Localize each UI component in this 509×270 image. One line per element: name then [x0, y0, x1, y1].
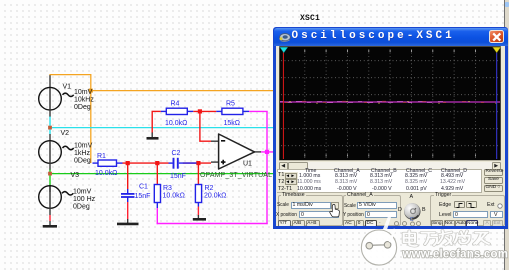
- op-amp U1: [219, 134, 255, 169]
- svg-text:10.0kΩ: 10.0kΩ: [165, 120, 187, 127]
- label C1 15nF: [135, 184, 151, 201]
- svg-text:V1: V1: [63, 84, 72, 91]
- wire: J3 down to R2: [197, 163, 199, 185]
- readout cursor rows labels: [277, 172, 298, 193]
- svg-text:R5: R5: [226, 100, 235, 107]
- svg-text:www.elecfans.com: www.elecfans.com: [402, 249, 509, 261]
- label R4 10.0kohm: [165, 100, 187, 126]
- cursor T2 (blue): [495, 48, 497, 159]
- junction: node J2 (R3/C2): [155, 161, 159, 165]
- knob scale marks: [393, 219, 427, 227]
- wire: V1 bottom pin: [49, 110, 51, 117]
- svg-text:20.0kΩ: 20.0kΩ: [204, 192, 226, 199]
- svg-text:10kHz: 10kHz: [74, 97, 94, 104]
- wire: red node line R1 to op-amp plus input: [123, 162, 212, 164]
- channel A group box: [343, 195, 401, 226]
- svg-text:0Deg: 0Deg: [74, 104, 91, 111]
- ground: C1: [117, 223, 139, 226]
- label C2 15nF: [170, 150, 186, 180]
- junction: node J3 (C2/R2): [196, 161, 200, 165]
- wire: orange branch to oscilloscope channel A: [91, 90, 279, 92]
- oscilloscope screen: [279, 46, 501, 161]
- trigger level row: [439, 213, 451, 218]
- channel select knob: [403, 202, 422, 221]
- svg-text:15nF: 15nF: [170, 173, 186, 180]
- svg-text:15nF: 15nF: [135, 193, 151, 200]
- label R1 10.0kohm: [95, 153, 117, 177]
- oscilloscope title bar: [274, 28, 508, 46]
- wire: J1 down to C1: [127, 163, 129, 194]
- ground: R4: [147, 132, 159, 138]
- workspace right scrollbar nub: [505, 2, 509, 7]
- wire: J2 down to R3: [156, 163, 158, 185]
- label U1: [243, 161, 252, 168]
- label R2 20.0kohm: [204, 185, 226, 200]
- label OPAMP_3T_VIRTUAL: [200, 172, 272, 179]
- wire: R4 to R5: [193, 110, 216, 112]
- svg-text:10.0kΩ: 10.0kΩ: [163, 192, 185, 199]
- readout table text: [297, 168, 481, 170]
- ground terminal button: [484, 185, 504, 192]
- node label V3: [71, 172, 80, 179]
- wire: cyan net to oscilloscope channel B: [50, 127, 279, 129]
- channel A y position row: [343, 213, 364, 218]
- resistor R1: [93, 160, 123, 166]
- timebase scale row: [277, 203, 289, 208]
- svg-text:15kΩ: 15kΩ: [224, 120, 241, 127]
- wire: op-amp input pin stubs: [211, 141, 219, 162]
- timebase mode buttons: [278, 220, 291, 227]
- cursor handle 1 (cyan triangle): [279, 47, 287, 53]
- resistor R5: [216, 108, 249, 114]
- svg-text:U1: U1: [243, 161, 252, 168]
- voltage source V2: [39, 141, 74, 164]
- svg-text:R2: R2: [205, 185, 214, 192]
- oscilloscope title text: [292, 31, 455, 42]
- channel A coupling buttons: [343, 220, 355, 227]
- label V2: [61, 130, 93, 165]
- trigger mode buttons: [431, 220, 444, 227]
- junction: orange branch node: [89, 89, 93, 93]
- wire: output net vertical (magenta): [266, 111, 268, 224]
- svg-text:V3: V3: [71, 172, 80, 179]
- oscilloscope readout area: [277, 169, 482, 193]
- channel A scale row: [344, 204, 356, 209]
- svg-text:R1: R1: [97, 153, 106, 160]
- svg-text:C1: C1: [139, 184, 148, 191]
- wire: R4/R5 node down to op-amp minus input: [200, 111, 211, 141]
- trigger group box: [430, 195, 506, 226]
- oscilloscope title icon: [279, 32, 291, 43]
- voltage source V1: [39, 87, 74, 110]
- junction: output node on magenta vertical: [265, 150, 269, 154]
- wire: R2 to ground: [197, 207, 199, 219]
- ground: V3: [43, 225, 57, 228]
- voltage source V3: [39, 186, 73, 209]
- wire: V1 top pin: [49, 75, 51, 88]
- resistor R3: [154, 185, 160, 209]
- wire: ground up to R4 left: [152, 111, 161, 132]
- svg-text:C2: C2: [172, 150, 181, 157]
- reverse button: [484, 169, 504, 176]
- wire: cyan net segment between V1 and V2: [49, 117, 51, 135]
- wire: R5 right to output net (magenta): [249, 110, 268, 112]
- junction: cyan node: [48, 126, 52, 130]
- label R5 15kohm: [224, 100, 241, 126]
- junction: green node: [48, 172, 52, 176]
- label R3 10.0kohm: [163, 185, 185, 200]
- window bottom border: [273, 226, 508, 230]
- svg-text:10mV: 10mV: [73, 189, 92, 196]
- timebase x position row: [276, 213, 297, 218]
- wire: green net V3 to oscilloscope channel C: [50, 173, 279, 175]
- oscilloscope scrollbar: [279, 162, 501, 170]
- wire: op-amp output stub: [254, 151, 279, 153]
- oscilloscope window XSC1: [273, 27, 508, 229]
- wire: V2 top pin: [49, 134, 51, 141]
- svg-text:V2: V2: [61, 130, 70, 137]
- label XSC1 (scope icon refdes): [300, 15, 320, 23]
- save button: [484, 177, 504, 184]
- svg-text:10.0kΩ: 10.0kΩ: [95, 170, 117, 177]
- resistor R2: [195, 185, 201, 207]
- svg-text:OPAMP_3T_VIRTUAL: OPAMP_3T_VIRTUAL: [200, 172, 272, 179]
- trace channel D (magenta flat line): [280, 101, 500, 103]
- wire: V3 bottom pin to ground: [49, 209, 51, 226]
- label V1: [63, 84, 95, 112]
- ground: R2: [193, 218, 206, 221]
- capacitor C1: [121, 194, 135, 202]
- timebase group box: [278, 195, 343, 226]
- wire: C1 to ground: [127, 202, 129, 223]
- svg-text:1kHz: 1kHz: [74, 150, 90, 157]
- oscilloscope window body: [276, 46, 505, 227]
- wire: orange net V1 to R1, segment top horizontal: [49, 74, 91, 76]
- svg-text:R3: R3: [163, 185, 172, 192]
- resistor R4: [161, 108, 194, 114]
- wire: V2 bottom pin: [49, 164, 51, 171]
- wire: orange net vertical down to R1: [90, 75, 92, 163]
- label V3 values: [73, 189, 96, 211]
- junction: R4/R5 node: [198, 109, 202, 113]
- svg-text:100 Hz: 100 Hz: [73, 196, 96, 203]
- cursor handle 2 (yellow triangle): [492, 47, 500, 53]
- workspace right panel edge: [504, 0, 509, 270]
- junction: node J1 (R1/C1): [126, 161, 130, 165]
- svg-text:0Deg: 0Deg: [74, 158, 91, 165]
- wire: output net bottom feedback run (magenta): [157, 223, 268, 225]
- watermark logo and text (elecfans): [355, 210, 509, 270]
- svg-text:10mV: 10mV: [74, 143, 93, 150]
- wire: R3 bottom to feedback (magenta): [156, 208, 158, 224]
- oscilloscope close button: [489, 30, 505, 44]
- trigger edge row: [439, 203, 451, 208]
- cursor T1 (red): [282, 48, 284, 159]
- svg-text:10mV: 10mV: [74, 89, 93, 96]
- mouse hand cursor: [329, 204, 340, 218]
- wire: V3 top pin: [49, 186, 51, 193]
- wire: green net segment between V2 and V3: [49, 170, 51, 187]
- svg-text:R4: R4: [171, 100, 180, 107]
- svg-text:0Deg: 0Deg: [73, 204, 90, 211]
- capacitor C2: [169, 158, 197, 169]
